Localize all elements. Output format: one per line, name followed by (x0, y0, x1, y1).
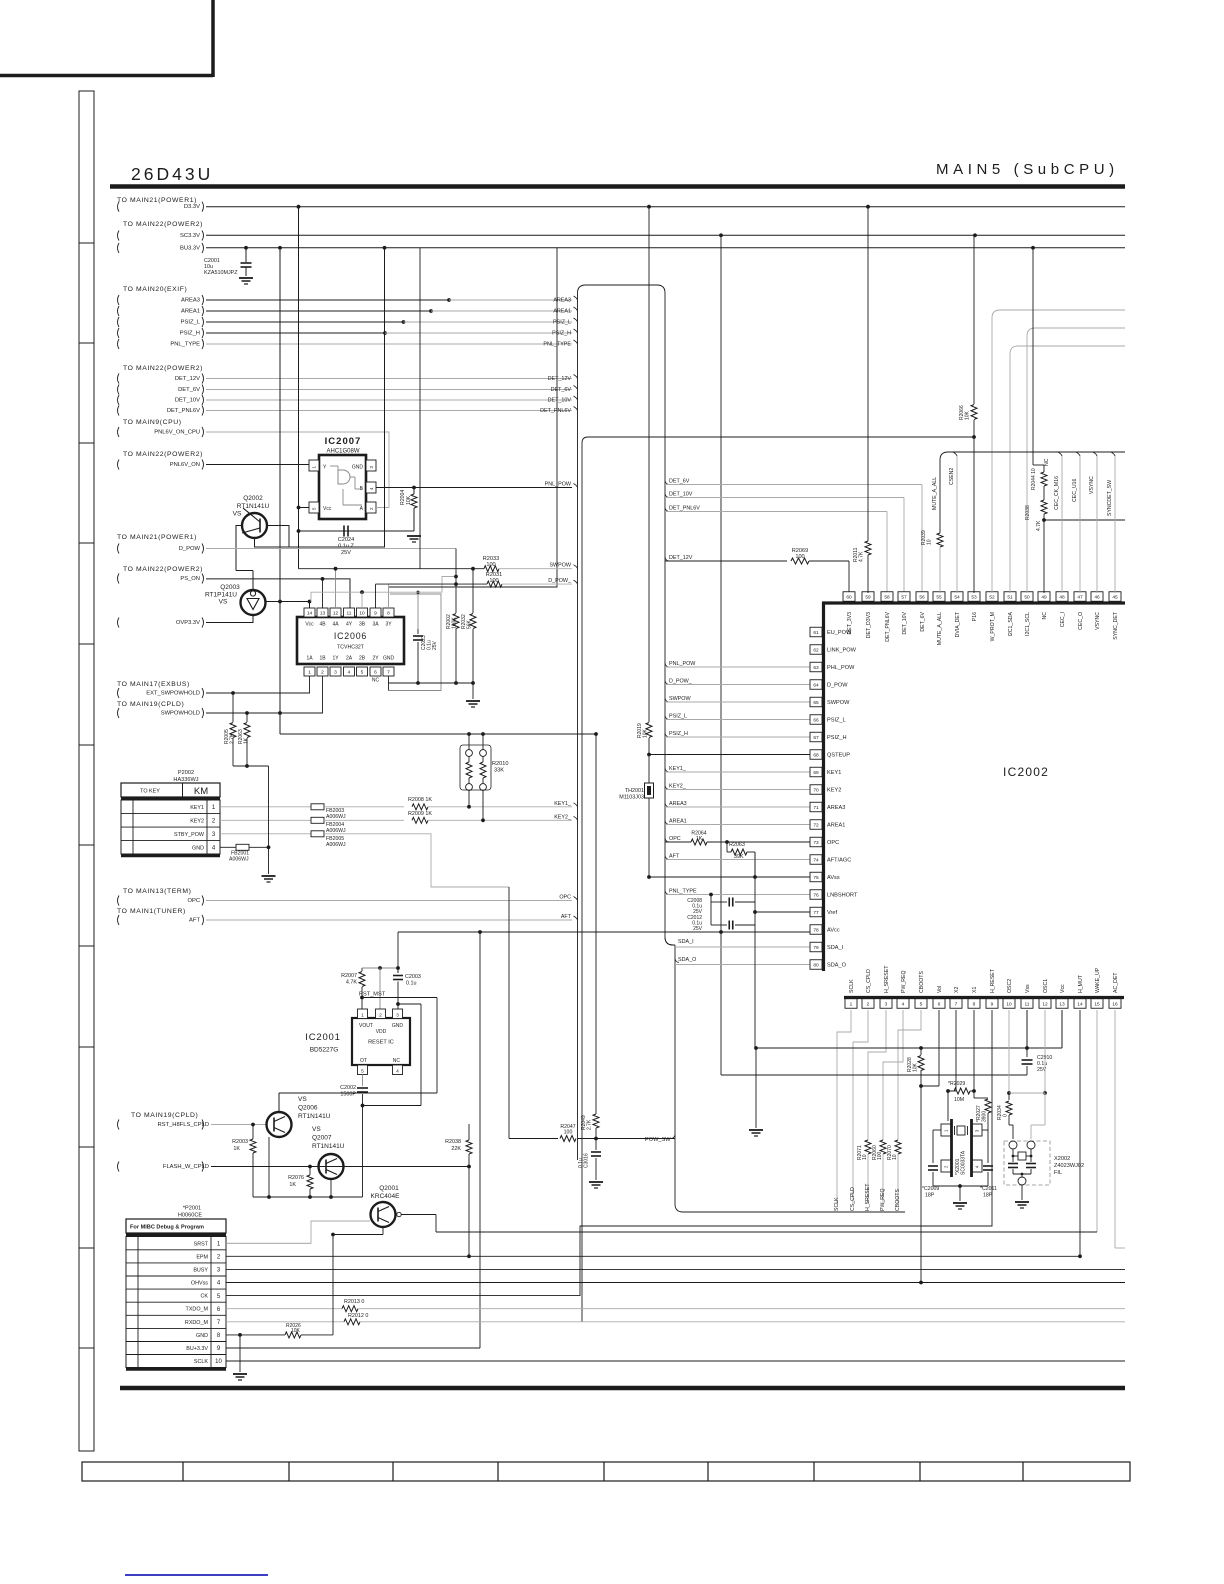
svg-text:KRC404E: KRC404E (371, 1193, 401, 1200)
svg-text:TO MAIN19(CPLD): TO MAIN19(CPLD) (117, 701, 184, 708)
capacitor C2023 (417, 629, 419, 634)
svg-text:GND: GND (196, 1333, 208, 1339)
svg-text:4.7K: 4.7K (346, 980, 357, 986)
svg-text:10K: 10K (913, 1062, 919, 1072)
bus2 rail vertical (581, 443, 583, 1322)
svg-text:50: 50 (1024, 594, 1030, 600)
wire key pullup link (233, 765, 269, 767)
wire GND row (220, 846, 236, 848)
ground X2001 (953, 1202, 967, 1204)
wire AREA1 exit (665, 821, 669, 825)
svg-text:BU3.3V: BU3.3V (180, 246, 200, 252)
svg-text:DET_PNL6V: DET_PNL6V (885, 611, 891, 641)
junction BU3.3V x1033 (1031, 246, 1035, 250)
junction D3.3V x868 (866, 205, 870, 209)
wire Q2006 collector (278, 1093, 280, 1112)
svg-text:STBY_POW: STBY_POW (174, 832, 205, 838)
svg-text:Q2007: Q2007 (312, 1135, 332, 1142)
wire OPC to pin73 (707, 841, 810, 843)
svg-text:7: 7 (955, 1001, 958, 1007)
wire Q2007 emitter (330, 1179, 332, 1197)
svg-text:PSIZ_H: PSIZ_H (669, 731, 688, 737)
svg-text:H_SRESET: H_SRESET (884, 965, 890, 993)
svg-text:TXDO_M: TXDO_M (186, 1307, 209, 1313)
svg-text:65: 65 (813, 700, 819, 706)
transistor Q2003 (241, 590, 266, 615)
left margin strip (79, 91, 94, 1451)
wire DET_10V to pin57 col (665, 494, 669, 498)
svg-text:OPC: OPC (559, 895, 571, 901)
svg-text:VS: VS (312, 1126, 321, 1133)
bus entry DET_6V (574, 386, 578, 390)
wire pin50 I2C1_SCL (1027, 328, 1125, 593)
svg-text:76: 76 (813, 892, 819, 898)
svg-text:11: 11 (347, 610, 352, 616)
svg-text:*C2011: *C2011 (980, 1186, 997, 1192)
bus entry CSEN2 (953, 452, 957, 456)
resistor R2038 (468, 1124, 470, 1140)
svg-text:X2002: X2002 (1054, 1156, 1070, 1162)
svg-text:3: 3 (334, 669, 337, 675)
svg-text:KEY1_: KEY1_ (669, 766, 687, 772)
svg-text:AFT: AFT (561, 914, 572, 920)
wire DET_PNL6V to bus (206, 410, 572, 412)
wire X2001 left leg (933, 1129, 941, 1131)
wire bus2 top to R2066 (588, 436, 974, 438)
resistor R2011 (865, 541, 871, 555)
svg-text:SWPOWHOLD: SWPOWHOLD (161, 711, 200, 717)
svg-text:62: 62 (813, 647, 819, 653)
wire osc jumper rail (1009, 1092, 1045, 1094)
wire cap join (710, 895, 712, 926)
svg-text:CSEN2: CSEN2 (949, 468, 955, 485)
svg-text:1: 1 (308, 669, 311, 675)
svg-text:3: 3 (396, 1013, 399, 1019)
svg-text:14: 14 (1077, 1001, 1083, 1007)
wire BU3.3V down feed (479, 932, 481, 1348)
svg-text:R2007: R2007 (341, 973, 357, 979)
svg-text:DET_PNL6V: DET_PNL6V (540, 408, 571, 414)
junction SC3.3V x721 (719, 233, 723, 237)
wire C2003 top feed (397, 932, 399, 973)
ic IC2002 bottom pin row 1-16 (845, 999, 857, 1009)
svg-text:25V: 25V (693, 926, 703, 932)
ferrite bead FB2004 (311, 817, 324, 823)
junction BU3.3V x384 (383, 246, 387, 250)
svg-text:VSYNC: VSYNC (1095, 612, 1101, 630)
svg-text:SCLK: SCLK (849, 979, 855, 993)
svg-text:LNBSHORT: LNBSHORT (827, 893, 858, 899)
svg-text:NC: NC (393, 1058, 401, 1064)
svg-text:M1103J03: M1103J03 (619, 795, 644, 801)
svg-text:D_POW: D_POW (827, 683, 848, 689)
wire KEY2_ to bus (428, 819, 572, 821)
wire xtal gnd rail (933, 1185, 988, 1187)
svg-text:13: 13 (1059, 1001, 1065, 1007)
svg-text:10: 10 (862, 1154, 868, 1160)
bus entry PNL_TYPE (574, 340, 578, 344)
svg-text:QSTEUP: QSTEUP (827, 753, 850, 759)
wire D_POW_ exit (665, 681, 669, 685)
svg-text:R2008 1K: R2008 1K (408, 797, 432, 803)
svg-text:DET_PNL6V: DET_PNL6V (167, 408, 200, 414)
transistor Q2006 (267, 1112, 292, 1137)
svg-text:TO MAIN22(POWER2): TO MAIN22(POWER2) (123, 221, 203, 228)
wire SWPOWHOLD (206, 677, 323, 714)
wire TXDO_M on (358, 1308, 1125, 1310)
svg-text:TH2001: TH2001 (625, 788, 644, 794)
svg-text:100: 100 (877, 1151, 883, 1160)
wire RXDO_M on (360, 1321, 1125, 1323)
svg-text:CEC_CK_M16: CEC_CK_M16 (1054, 476, 1060, 510)
bus entry PNL_POW (574, 484, 578, 488)
svg-text:79: 79 (813, 945, 819, 951)
svg-text:69: 69 (813, 770, 819, 776)
wire PSIZ_L dark segment (206, 321, 404, 323)
svg-text:Q2002: Q2002 (243, 495, 263, 502)
svg-text:1K: 1K (289, 1182, 296, 1188)
svg-text:IC2001: IC2001 (305, 1032, 340, 1043)
wire KEY2 to R2009 (324, 819, 404, 821)
svg-text:KEY2_: KEY2_ (554, 815, 572, 821)
svg-text:PSIZ_L: PSIZ_L (669, 713, 687, 719)
svg-text:SCLK: SCLK (834, 1197, 840, 1211)
svg-text:10K: 10K (965, 410, 971, 420)
wire OPC exit (665, 838, 669, 842)
wire pin2 CS_CPLD down (853, 1010, 868, 1204)
svg-text:TCVHC32T: TCVHC32T (337, 645, 365, 651)
svg-text:*C2009: *C2009 (922, 1186, 939, 1192)
svg-text:R2038: R2038 (445, 1139, 461, 1145)
wire POW_SW exit (671, 1135, 675, 1139)
svg-text:AREA3: AREA3 (181, 298, 200, 304)
ic IC2001 pin 3 (393, 1009, 403, 1019)
ground X2002 (1015, 1201, 1029, 1203)
wire IC2006 pin9 up (375, 584, 377, 608)
junction R2004 top (412, 486, 416, 490)
wire pin59 DET_D3V3 (867, 207, 869, 541)
svg-text:MAIN5 (SubCPU): MAIN5 (SubCPU) (936, 161, 1119, 178)
svg-text:*R2029: *R2029 (948, 1081, 965, 1087)
wire pin3 H_SRESET down (868, 1010, 886, 1140)
wire IC2006 pin13 up (322, 579, 324, 608)
svg-text:1500P: 1500P (340, 1092, 356, 1098)
wire SWPOW to bus (499, 568, 572, 570)
svg-text:AREA3: AREA3 (669, 801, 687, 807)
wire P2001 gnd drop (239, 1335, 241, 1372)
svg-text:GND: GND (392, 1023, 404, 1029)
svg-text:CEC_O: CEC_O (1078, 612, 1084, 630)
resistor R2069 (791, 558, 809, 564)
svg-text:2: 2 (867, 1001, 870, 1007)
svg-text:TO MAIN9(CPU): TO MAIN9(CPU) (123, 419, 182, 426)
svg-text:BD5227G: BD5227G (310, 1047, 339, 1054)
resistor R2013 (342, 1306, 358, 1312)
wire Q2003 top link (236, 570, 253, 572)
resistor R2032 (472, 569, 474, 613)
svg-text:47: 47 (1077, 594, 1083, 600)
wire RST_H8FLS_CPLD (211, 1124, 266, 1126)
wire R2010 bottoms (468, 791, 470, 807)
svg-text:PSIZ_H: PSIZ_H (827, 735, 847, 741)
resistor R2063b (246, 713, 248, 722)
svg-text:I2C1_SCL: I2C1_SCL (1025, 612, 1031, 636)
svg-text:1K: 1K (233, 1146, 240, 1152)
svg-text:CS_CPLD: CS_CPLD (850, 1187, 856, 1211)
svg-text:AVss: AVss (827, 875, 840, 881)
svg-text:1Y: 1Y (332, 656, 339, 662)
svg-text:2.7K: 2.7K (587, 1119, 593, 1130)
wire STBY_POW on (324, 834, 509, 887)
svg-text:X2: X2 (954, 987, 960, 993)
bus entry AFT (574, 916, 578, 920)
wire IC2006 pin12 up (335, 569, 337, 608)
svg-text:75: 75 (813, 875, 819, 881)
svg-text:70: 70 (813, 787, 819, 793)
svg-text:DET_12V: DET_12V (548, 376, 572, 382)
ground IC2006 (466, 700, 480, 702)
svg-text:C2024: C2024 (338, 537, 354, 543)
ic IC2007 pin 5 (Vcc) (309, 502, 319, 513)
svg-text:Q2003: Q2003 (220, 584, 240, 591)
svg-text:SWPOW: SWPOW (549, 563, 571, 569)
svg-text:VSYNC: VSYNC (1089, 476, 1095, 494)
svg-text:AREA3: AREA3 (827, 805, 845, 811)
wire Q2002 emitter loop (255, 248, 385, 547)
wire Q2002 collector from BU3.3V (279, 248, 281, 734)
wire PNL6V_ON (206, 464, 309, 466)
svg-text:8: 8 (973, 1001, 976, 1007)
svg-text:5: 5 (361, 1069, 364, 1075)
svg-text:TO KEY: TO KEY (140, 789, 160, 795)
resistor R2005 (232, 693, 234, 722)
svg-text:PSIZ_L: PSIZ_L (553, 320, 571, 326)
ground for C2001 (239, 277, 253, 279)
wire STBY_POW row (220, 833, 311, 835)
ferrite bead FB2005 (311, 831, 324, 837)
wire pin4 PW_REQ down (883, 1010, 903, 1140)
node PNL6V_ON_CPU stub (118, 427, 120, 437)
wire RST_MST down (436, 998, 438, 1094)
node OPC stub (118, 896, 120, 906)
wire C2023 top (417, 592, 419, 629)
svg-text:0.1u: 0.1u (406, 981, 417, 987)
junction x597 y734 (594, 732, 598, 736)
svg-text:BU+3.3V: BU+3.3V (186, 1346, 208, 1352)
capacitor C2910 (1026, 1048, 1028, 1057)
wire KEY2 exit (665, 786, 669, 790)
svg-text:Vss: Vss (1025, 984, 1031, 993)
wire pin13 Vcc (1061, 1010, 1063, 1048)
svg-text:Vcc: Vcc (323, 506, 332, 512)
node FLASH_W_CPLD stub (118, 1162, 120, 1172)
svg-text:FIL: FIL (1054, 1170, 1062, 1176)
connector P2001 bottom bar (126, 1368, 226, 1371)
node BU3.3V stub (118, 243, 120, 253)
junction AVss (647, 875, 651, 879)
svg-text:64: 64 (813, 682, 819, 688)
bottom heavy rule (120, 1386, 1125, 1391)
wire pin14 H_MUT down (1079, 1010, 1081, 1256)
svg-text:SDA_I: SDA_I (827, 945, 844, 951)
svg-text:H_MUT: H_MUT (1078, 974, 1084, 993)
svg-text:AREA3: AREA3 (553, 298, 571, 304)
svg-text:4A: 4A (332, 622, 339, 628)
svg-text:AFT: AFT (189, 918, 200, 924)
wire pin53 P16 (973, 437, 975, 593)
svg-text:2B: 2B (359, 656, 366, 662)
svg-text:For MIBC Debug & Program: For MIBC Debug & Program (130, 1225, 204, 1231)
svg-text:4: 4 (348, 669, 351, 675)
svg-text:9: 9 (991, 1001, 994, 1007)
wire pin2 drop (379, 968, 381, 1009)
svg-text:0: 0 (1003, 1114, 1009, 1117)
svg-text:3B: 3B (359, 622, 366, 628)
wire AREA1 dark segment (206, 310, 431, 312)
wire Q2002 base (236, 526, 242, 571)
wire PSIZ_H exit (665, 733, 669, 737)
svg-text:PSIZ_L: PSIZ_L (181, 320, 201, 326)
wire DET_12V exit (665, 557, 669, 561)
wire GND on (301, 1334, 333, 1336)
ic IC2001 pin 5 (358, 1065, 368, 1075)
svg-text:10: 10 (359, 610, 365, 616)
node AFT stub (118, 915, 120, 925)
svg-text:PW_REQ: PW_REQ (880, 1189, 886, 1211)
wire TXDO_M row (226, 1308, 342, 1310)
wire PNL6V_ON_CPU (206, 432, 389, 508)
wire X2002 right up (1030, 1125, 1032, 1139)
svg-text:AREA1: AREA1 (553, 309, 571, 315)
node EXT_SWPOWHOLD stub (118, 688, 120, 698)
svg-text:LINK_POW: LINK_POW (827, 648, 857, 654)
connector P2002 bottom bar (121, 854, 220, 857)
svg-text:4.7K: 4.7K (1036, 520, 1042, 531)
svg-text:WAKE_UP: WAKE_UP (1095, 967, 1101, 993)
capacitor C2001 (245, 248, 247, 262)
svg-text:A006WJ: A006WJ (229, 857, 249, 863)
wire BUSY row (226, 1268, 1125, 1270)
bus rail lower vertical (674, 945, 676, 1204)
ground C3016 (589, 1181, 603, 1183)
wire AREA3 exit (665, 803, 669, 807)
node D3.3V stub (118, 202, 120, 212)
svg-text:D_POW_: D_POW_ (669, 678, 693, 684)
svg-text:PHL_POW: PHL_POW (827, 665, 855, 671)
svg-text:TO MAIN1(TUNER): TO MAIN1(TUNER) (117, 908, 186, 915)
svg-text:63: 63 (813, 665, 819, 671)
svg-text:3Y: 3Y (385, 622, 392, 628)
svg-text:10: 10 (1006, 1001, 1012, 1007)
svg-text:TO MAIN22(POWER2): TO MAIN22(POWER2) (123, 451, 203, 458)
svg-text:RT1P141U: RT1P141U (205, 592, 237, 599)
wire C2024 node (299, 530, 415, 532)
junction BU3.3V x246 (244, 246, 248, 250)
svg-text:CBOOTS: CBOOTS (919, 971, 925, 993)
svg-text:Vref: Vref (827, 910, 837, 916)
node SWPOWHOLD stub (118, 708, 120, 718)
bus entry PSIZ_L (574, 318, 578, 322)
wire PSIZ_H to bus (385, 332, 572, 334)
wire pin7 X2 down (955, 1010, 957, 1091)
node D_POW stub (118, 544, 120, 554)
node PSIZ_H stub (118, 328, 120, 338)
ic IC2001 pin 4 (393, 1065, 403, 1075)
node PNL_TYPE stub (118, 339, 120, 349)
svg-text:2A: 2A (346, 656, 353, 662)
node PSIZ_L stub (118, 317, 120, 327)
svg-text:DET_10V: DET_10V (175, 398, 200, 404)
svg-text:R2003: R2003 (232, 1139, 248, 1145)
ic IC2007 pin 4 (B) (366, 482, 376, 493)
wire DET_10V to bus (206, 399, 572, 401)
svg-text:POW_SW: POW_SW (645, 1137, 671, 1143)
svg-text:PNL_POW: PNL_POW (669, 661, 696, 667)
svg-text:5: 5 (361, 669, 364, 675)
svg-text:1B: 1B (319, 656, 326, 662)
svg-text:GND: GND (383, 656, 395, 662)
wire IC2006 pin8 up (389, 248, 558, 608)
wire x721 SC3.3V down (720, 235, 722, 1075)
svg-text:VS: VS (298, 1096, 307, 1103)
bus rail left vertical (577, 293, 579, 1160)
svg-text:R2009 1K: R2009 1K (408, 811, 432, 817)
svg-text:*P2001: *P2001 (183, 1206, 201, 1212)
wire Vss rail (756, 1047, 1062, 1049)
wire KEY1_ to bus (428, 806, 572, 808)
wire Q2007 collector (330, 1153, 332, 1154)
bus entry SYNCDET_SW (1111, 452, 1115, 456)
thermistor TH2001 (648, 755, 650, 784)
svg-text:KEY2_: KEY2_ (669, 783, 687, 789)
svg-text:4.7K: 4.7K (859, 551, 865, 562)
junction R2028 bottom (919, 1084, 923, 1088)
svg-text:OVP3.3V: OVP3.3V (176, 620, 200, 626)
svg-text:A006WJ: A006WJ (326, 828, 346, 834)
svg-text:NC: NC (372, 678, 380, 684)
svg-text:7: 7 (387, 669, 390, 675)
wire PNL_TYPE exit (665, 891, 669, 895)
svg-text:5: 5 (920, 1001, 923, 1007)
resistor R2019 (648, 207, 650, 722)
svg-text:53: 53 (971, 594, 977, 600)
svg-text:3A: 3A (372, 622, 379, 628)
wire Q2001 out (401, 1214, 436, 1216)
svg-text:18P: 18P (925, 1193, 935, 1199)
svg-text:4: 4 (902, 1001, 905, 1007)
junction SC3.3V x975 (973, 233, 977, 237)
connector P2002 header bar (121, 797, 220, 800)
ic IC2001 pin 2 (376, 1009, 386, 1019)
svg-text:KZA510MJPZ: KZA510MJPZ (204, 270, 238, 276)
bus rail bottom arc (675, 1204, 905, 1212)
svg-text:DET_6V: DET_6V (178, 387, 200, 393)
svg-text:12: 12 (1042, 1001, 1048, 1007)
wire IC2006 gnd rail (388, 677, 390, 691)
svg-text:25V: 25V (341, 550, 351, 556)
svg-text:P2002: P2002 (178, 770, 194, 776)
svg-text:D3.3V: D3.3V (184, 204, 200, 210)
bus entry KEY2_ (574, 816, 578, 820)
wire IC2007 loop right (376, 507, 389, 509)
resistor R2034 (1008, 1093, 1010, 1100)
wire WAKE_UP rail (436, 1231, 1097, 1233)
svg-text:DET_6V: DET_6V (920, 611, 926, 631)
svg-text:13: 13 (320, 610, 326, 616)
wire pin11 Vss (1026, 1010, 1028, 1048)
svg-text:TO MAIN22(POWER2): TO MAIN22(POWER2) (123, 566, 203, 573)
wire D_POW (206, 548, 456, 550)
